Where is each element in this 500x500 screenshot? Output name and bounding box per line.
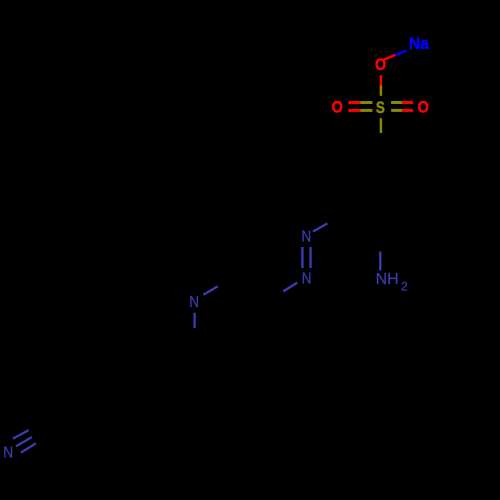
bond Nring-Ca blue half xyxy=(203,286,218,294)
svg-text:O: O xyxy=(332,98,343,117)
triple bond C#N line bottom xyxy=(21,443,36,452)
svg-text:N: N xyxy=(3,445,13,462)
double bond N1=N2 line2 xyxy=(309,247,311,268)
double bond S=O3 (right) line1 olive xyxy=(391,101,402,104)
bond O1-S : red half xyxy=(380,75,383,85)
svg-text:O: O xyxy=(375,55,386,74)
invisible carbon skeleton: benzene ring A (sulfonate/amino ring) xyxy=(327,133,417,253)
bond S-C1 olive half xyxy=(380,118,382,133)
double bond N1=N2 line1 xyxy=(301,247,303,268)
svg-text:NH: NH xyxy=(376,271,399,288)
double bond S=O2 (left) line2 olive xyxy=(360,109,372,112)
double bond S=O2 (left) line1 olive xyxy=(360,101,372,104)
svg-text:2: 2 xyxy=(401,280,408,294)
hard-style sulfonate group xyxy=(348,51,413,133)
invisible carbon skeleton: ring B (pyridine-like) and lower phenyl with nitrile stub xyxy=(30,279,283,451)
soft-style azo / amine / ring N / nitrile xyxy=(13,223,381,452)
triple bond C#N line top xyxy=(13,430,29,438)
bond O1-Na : blue half xyxy=(395,51,406,55)
svg-text:N: N xyxy=(189,294,199,311)
svg-text:O: O xyxy=(418,98,429,117)
double bond S=O3 (right) line1 red xyxy=(402,101,413,104)
svg-text:N: N xyxy=(301,229,311,246)
double bond S=O3 (right) line2 olive xyxy=(391,109,402,112)
bond N2-Cc blue half xyxy=(283,283,297,292)
bond Nring-Cb blue half xyxy=(193,313,195,329)
double bond S=O2 (left) line1 red xyxy=(348,101,360,104)
double bond S=O3 (right) line2 red xyxy=(402,109,413,112)
bond O1-S : olive half xyxy=(380,86,383,96)
svg-text:S: S xyxy=(376,98,385,117)
bond C5-N1 (azo) blue half xyxy=(313,223,327,231)
bond C4-NH2 blue half xyxy=(379,252,381,271)
svg-text:Na: Na xyxy=(409,34,430,53)
svg-text:N: N xyxy=(302,271,312,288)
triple bond C#N line middle xyxy=(16,437,32,446)
bond O1-Na : red half xyxy=(384,55,395,60)
double bond S=O2 (left) line2 red xyxy=(348,109,360,112)
